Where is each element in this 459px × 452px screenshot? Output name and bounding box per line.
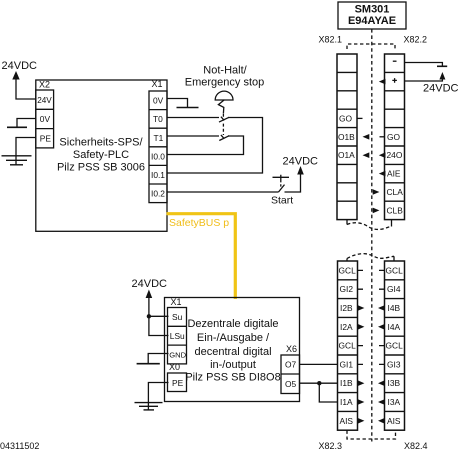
mushroom stem	[218, 100, 224, 114]
svg-text:0V: 0V	[40, 114, 51, 124]
terminal strip X82.2	[385, 54, 405, 220]
svg-text:X2: X2	[39, 80, 50, 90]
arrow CLB	[373, 208, 380, 214]
svg-text:X1: X1	[171, 297, 182, 307]
terminal block U2X1	[168, 308, 187, 364]
svg-text:X82.3: X82.3	[319, 441, 343, 451]
arrow AIE	[379, 171, 386, 177]
wire O7 to GI1	[300, 363, 338, 365]
wire 24VDC to Su	[149, 297, 169, 316]
svg-text:24O: 24O	[387, 150, 403, 160]
wire X2:0V to 0V rail	[17, 119, 36, 128]
svg-text:I1A: I1A	[340, 397, 353, 407]
contact S1.2 tick	[221, 135, 224, 139]
svg-text:PE: PE	[172, 378, 184, 388]
svg-text:04311502: 04311502	[0, 441, 39, 451]
svg-text:GO: GO	[339, 113, 353, 123]
svg-text:X6: X6	[286, 344, 297, 354]
svg-text:I3A: I3A	[388, 397, 401, 407]
arrow I4A	[378, 324, 385, 330]
wire X82.2 minus to 0V	[405, 63, 443, 67]
terminal U2X0:PE	[168, 373, 187, 392]
terminal strip X82.3	[338, 261, 358, 430]
dashed bracket bottom	[347, 431, 396, 440]
svg-text:24VDC: 24VDC	[2, 60, 38, 72]
svg-text:in-/output: in-/output	[210, 359, 256, 371]
label SM301	[348, 4, 396, 27]
svg-text:Su: Su	[172, 312, 183, 322]
svg-text:GND: GND	[169, 350, 186, 359]
arrow I1A	[358, 399, 365, 405]
svg-text:I1B: I1B	[340, 378, 353, 388]
svg-text:O5: O5	[285, 379, 297, 389]
module U2 DI8O8 box	[165, 298, 300, 402]
svg-text:24VDC: 24VDC	[132, 278, 168, 290]
svg-text:24VDC: 24VDC	[283, 156, 319, 168]
svg-text:Pilz PSS SB DI8O8: Pilz PSS SB DI8O8	[185, 372, 280, 384]
arrow O1B	[363, 134, 370, 140]
svg-text:AIS: AIS	[387, 416, 401, 426]
module SM301 box	[338, 2, 406, 29]
svg-text:O7: O7	[285, 360, 297, 370]
svg-text:Emergency stop: Emergency stop	[185, 77, 264, 89]
svg-text:I0.0: I0.0	[151, 151, 165, 161]
svg-text:GCL: GCL	[339, 341, 357, 351]
svg-text:I3B: I3B	[388, 378, 401, 388]
0V rail bar U2	[137, 363, 160, 365]
node junction Su/LSu	[147, 314, 151, 318]
svg-text:GCL: GCL	[339, 265, 357, 275]
terminal strip X82.1	[337, 54, 357, 220]
contact S1.2 NC	[219, 136, 229, 141]
svg-text:GI3: GI3	[387, 359, 401, 369]
arrow AIS X82.4	[378, 418, 385, 424]
wire X82.2 plus to 24VDC	[405, 77, 443, 81]
svg-text:E94AYAE: E94AYAE	[348, 15, 396, 27]
svg-text:I0.2: I0.2	[151, 189, 165, 199]
svg-text:I2B: I2B	[340, 303, 353, 313]
arrow I2A	[358, 324, 365, 330]
svg-text:GO: GO	[387, 132, 401, 142]
svg-text:GCL: GCL	[386, 341, 404, 351]
wire X1:0V to 0V rail right	[167, 99, 188, 108]
svg-text:I0.1: I0.1	[151, 170, 165, 180]
svg-text:T0: T0	[153, 114, 163, 124]
arrow O1A	[363, 152, 370, 158]
wire branch to I1A	[319, 383, 337, 402]
arrow I3B	[378, 380, 385, 386]
svg-text:AIS: AIS	[340, 416, 354, 426]
label Not-Halt	[185, 65, 264, 89]
svg-text:24V: 24V	[37, 96, 52, 105]
wire SafetyBUS p cable	[167, 214, 236, 299]
svg-text:Dezentrale digitale: Dezentrale digitale	[187, 318, 278, 330]
contact S1.1 NC	[219, 117, 229, 122]
tick GO X82.2	[380, 136, 385, 138]
svg-text:O1B: O1B	[338, 132, 355, 142]
break stub X82.4 top	[393, 256, 395, 261]
svg-text:X1: X1	[152, 79, 163, 89]
0V rail bar right	[177, 107, 199, 109]
wire 24VDC to X2:24V	[16, 79, 36, 100]
svg-text:GI2: GI2	[340, 284, 354, 294]
arrow AIS X82.3	[358, 418, 365, 424]
svg-text:LSu: LSu	[170, 331, 185, 341]
svg-text:X82.1: X82.1	[319, 35, 343, 45]
break stub X82.1 bottom	[346, 220, 348, 225]
svg-text:X82.2: X82.2	[404, 35, 428, 45]
wire X2:PE to ground	[16, 138, 36, 166]
arrow I1B	[358, 380, 365, 386]
label plus X82.2	[392, 78, 397, 83]
terminal block U2X6	[281, 355, 300, 394]
svg-text:I4B: I4B	[388, 303, 401, 313]
tick GO X82.1	[357, 117, 363, 119]
label minus X82.2	[393, 60, 397, 62]
supply arrow 24VDC start	[297, 166, 304, 175]
ground U2	[135, 403, 163, 410]
arrow 24O	[379, 152, 386, 158]
svg-text:X82.4: X82.4	[404, 441, 428, 451]
break curve upper	[347, 223, 392, 230]
svg-text:24VDC: 24VDC	[423, 83, 459, 95]
label U2 text	[185, 318, 280, 384]
svg-text:X0: X0	[169, 362, 180, 372]
arrow CLA	[373, 189, 380, 195]
svg-text:AIE: AIE	[387, 169, 401, 179]
supply arrow 24VDC left	[12, 71, 19, 80]
arrow I4B	[378, 305, 385, 311]
wire I0.2 to start contact	[167, 191, 279, 193]
ground X2:PE	[2, 156, 32, 165]
svg-text:0V: 0V	[153, 96, 164, 106]
pushbutton dashed link	[280, 180, 282, 188]
actuator dashed link	[222, 114, 224, 135]
svg-text:Not-Halt/: Not-Halt/	[203, 65, 247, 77]
wire start contact to 24VDC	[285, 174, 301, 193]
emergency stop mushroom S1	[215, 91, 233, 100]
wire T1 loop to I0.0	[167, 136, 244, 155]
svg-text:SafetyBUS p: SafetyBUS p	[169, 217, 229, 229]
arrow I3A	[378, 399, 385, 405]
arrow I2B	[358, 305, 365, 311]
svg-text:CLA: CLA	[387, 187, 404, 197]
svg-text:GCL: GCL	[386, 265, 404, 275]
contact S1.1 tick	[221, 117, 224, 121]
dashed bracket top	[347, 44, 395, 49]
svg-text:Safety-PLC: Safety-PLC	[73, 149, 129, 161]
svg-text:GI4: GI4	[387, 284, 401, 294]
wire GND to 0V rail	[148, 354, 168, 364]
supply arrow 24VDC X82.2	[439, 72, 445, 80]
break stub X82.3 top	[346, 259, 348, 262]
supply arrow 24VDC U2	[146, 290, 153, 299]
ticks X82.4	[379, 270, 385, 364]
svg-text:GI1: GI1	[340, 359, 354, 369]
contact S2 NO blade	[279, 185, 285, 192]
terminal block X2	[36, 90, 54, 148]
break curve lower	[347, 254, 394, 259]
0V rail bar X82.2	[437, 65, 447, 67]
svg-text:I2A: I2A	[340, 322, 353, 332]
pushbutton actuator T	[273, 175, 290, 180]
break stub X82.2 bottom	[391, 220, 393, 227]
svg-text:T1: T1	[154, 133, 164, 143]
dashed module boundary line	[371, 29, 373, 442]
svg-text:decentral digital: decentral digital	[194, 346, 271, 358]
ticks X82.3	[358, 270, 364, 364]
svg-text:Pilz PSS SB 3006: Pilz PSS SB 3006	[57, 162, 145, 174]
svg-text:Ein-/Ausgabe /: Ein-/Ausgabe /	[197, 332, 270, 344]
arrow plus X82.2	[379, 79, 386, 85]
wire O5 to I1B	[300, 382, 338, 384]
terminal block X1	[149, 91, 167, 203]
module U1 Safety-PLC box	[36, 80, 167, 231]
svg-text:SM301: SM301	[355, 4, 390, 16]
svg-text:I4A: I4A	[388, 322, 401, 332]
wire branch to LSu	[149, 316, 169, 335]
svg-text:Start: Start	[271, 195, 293, 207]
svg-text:CLB: CLB	[387, 205, 404, 215]
wire T0 loop to I0.1	[167, 118, 263, 174]
node junction O5 branch	[317, 381, 321, 385]
wire PE U2 to ground	[148, 383, 168, 410]
svg-text:PE: PE	[40, 133, 52, 143]
0V rail bar left	[7, 126, 27, 128]
svg-text:O1A: O1A	[338, 150, 355, 160]
svg-text:Sicherheits-SPS/: Sicherheits-SPS/	[59, 137, 143, 149]
label U1 text	[57, 137, 145, 174]
terminal strip X82.4	[385, 261, 405, 430]
